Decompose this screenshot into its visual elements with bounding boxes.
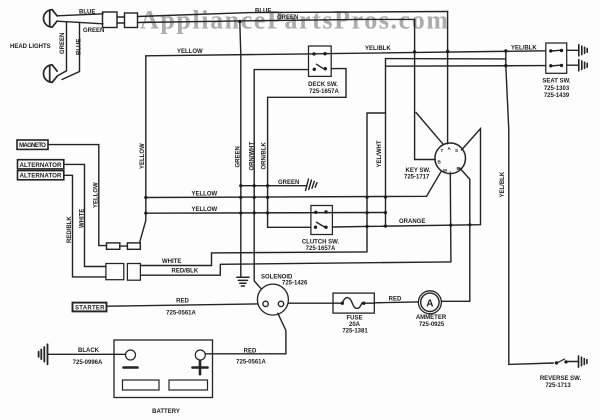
svg-text:YELLOW: YELLOW xyxy=(192,192,218,198)
svg-text:T: T xyxy=(441,148,444,153)
svg-text:YEL/WHT: YEL/WHT xyxy=(377,140,383,167)
svg-text:RED: RED xyxy=(389,296,402,302)
svg-text:HEAD LIGHTS: HEAD LIGHTS xyxy=(10,44,51,50)
svg-text:YEL/BLK: YEL/BLK xyxy=(511,45,537,51)
svg-text:ORN/BLK: ORN/BLK xyxy=(262,142,268,170)
svg-text:725-1303: 725-1303 xyxy=(544,86,570,92)
svg-text:BLUE: BLUE xyxy=(255,9,271,15)
svg-text:725-0561A: 725-0561A xyxy=(166,311,196,317)
svg-text:A: A xyxy=(448,146,452,151)
svg-text:A: A xyxy=(426,298,433,309)
svg-text:ORANGE: ORANGE xyxy=(399,219,425,225)
svg-text:WHITE: WHITE xyxy=(80,209,86,228)
svg-text:RED: RED xyxy=(244,348,257,354)
svg-text:YELLOW: YELLOW xyxy=(192,207,218,213)
svg-text:GREEN: GREEN xyxy=(83,28,104,34)
svg-text:20A: 20A xyxy=(349,322,361,328)
svg-text:725-1426: 725-1426 xyxy=(282,280,308,286)
svg-text:SEAT SW.: SEAT SW. xyxy=(542,79,571,85)
svg-text:BLUE: BLUE xyxy=(77,39,83,55)
svg-text:STARTER: STARTER xyxy=(75,305,105,311)
svg-text:L: L xyxy=(450,170,453,175)
svg-text:725-1713: 725-1713 xyxy=(545,383,571,389)
svg-text:DECK SW.: DECK SW. xyxy=(308,82,338,88)
svg-text:BATTERY: BATTERY xyxy=(152,409,180,415)
svg-text:S: S xyxy=(455,148,458,153)
svg-text:B: B xyxy=(438,160,442,165)
svg-text:RED/BLK: RED/BLK xyxy=(172,269,199,275)
svg-text:CLUTCH SW.: CLUTCH SW. xyxy=(302,240,340,246)
svg-text:YELLOW: YELLOW xyxy=(177,49,203,55)
svg-text:ALTERNATOR: ALTERNATOR xyxy=(20,162,63,169)
svg-text:725-0996A: 725-0996A xyxy=(73,360,103,366)
svg-text:GREEN: GREEN xyxy=(278,180,299,186)
svg-text:AMMETER: AMMETER xyxy=(416,315,447,321)
svg-text:GREEN: GREEN xyxy=(60,33,66,54)
svg-text:BLACK: BLACK xyxy=(78,348,100,354)
svg-text:ALTERNATOR: ALTERNATOR xyxy=(20,173,63,180)
svg-text:725-1657A: 725-1657A xyxy=(309,89,339,95)
svg-text:ORN/WHT: ORN/WHT xyxy=(250,142,256,171)
svg-text:725-0561A: 725-0561A xyxy=(236,360,266,366)
svg-text:YEL/BLK: YEL/BLK xyxy=(365,46,391,52)
svg-text:RED: RED xyxy=(176,299,189,305)
svg-text:FUSE: FUSE xyxy=(346,315,362,321)
svg-text:GREEN: GREEN xyxy=(236,146,242,167)
svg-text:YELLOW: YELLOW xyxy=(94,182,100,208)
svg-text:RED/BLK: RED/BLK xyxy=(67,216,73,243)
svg-text:WHITE: WHITE xyxy=(162,259,181,265)
svg-text:725-1439: 725-1439 xyxy=(544,93,570,99)
svg-text:YEL/BLK: YEL/BLK xyxy=(500,171,506,197)
svg-text:725-0925: 725-0925 xyxy=(419,322,445,328)
svg-text:GREEN: GREEN xyxy=(277,15,298,21)
svg-text:725-1657A: 725-1657A xyxy=(306,246,336,252)
svg-text:BLUE: BLUE xyxy=(79,10,95,16)
svg-text:KEY SW.: KEY SW. xyxy=(406,168,431,174)
svg-text:REVERSE SW.: REVERSE SW. xyxy=(540,376,582,382)
svg-text:YELLOW: YELLOW xyxy=(140,143,146,169)
svg-text:M: M xyxy=(443,168,447,173)
svg-text:725-1381: 725-1381 xyxy=(342,328,368,334)
svg-text:725-1717: 725-1717 xyxy=(404,175,430,181)
svg-text:MAGNETO: MAGNETO xyxy=(19,142,46,149)
